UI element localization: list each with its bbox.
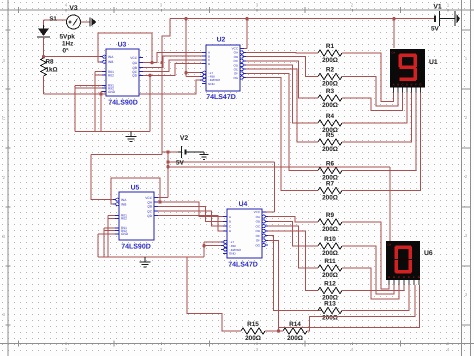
svg-text:R12: R12 — [324, 281, 336, 288]
svg-text:U2: U2 — [217, 37, 226, 44]
wire U2 OA to R1 — [244, 51, 318, 54]
wire R13 to U6 pin E — [342, 285, 409, 311]
svg-text:200Ω: 200Ω — [322, 146, 338, 153]
svg-text:R8: R8 — [46, 59, 55, 66]
wire R14 to U6 pin F — [307, 285, 415, 331]
resistor R7 — [318, 181, 342, 202]
wire U5 R01 R02 left — [108, 215, 115, 257]
wire diode to R8 — [43, 37, 45, 58]
svg-text:E: E — [408, 275, 410, 279]
ground (below U5) — [140, 257, 151, 267]
svg-text:OE: OE — [256, 234, 260, 238]
svg-text:R15: R15 — [247, 321, 259, 328]
svg-text:74LS47D: 74LS47D — [228, 262, 258, 269]
svg-text:A: A — [388, 275, 390, 279]
decoder U2 74LS47D — [200, 37, 246, 102]
svg-text:GND: GND — [121, 232, 129, 236]
wire R2 to U1 pin B — [342, 77, 398, 107]
wire R4 to U1 pin D — [342, 93, 407, 124]
svg-text:C: C — [401, 82, 403, 86]
wire U5 QA loopback to INB — [111, 178, 162, 204]
wire U2 RBO line — [44, 80, 203, 94]
battery V2 — [176, 135, 197, 167]
svg-text:200Ω: 200Ω — [322, 80, 338, 87]
ground (below U3) — [126, 132, 137, 142]
svg-text:CA: CA — [392, 52, 396, 55]
svg-text:200Ω: 200Ω — [322, 102, 338, 109]
svg-text:A: A — [229, 215, 231, 219]
svg-text:R14: R14 — [289, 321, 301, 328]
wire rail corner to V2 node — [162, 19, 170, 155]
svg-text:B: B — [393, 275, 395, 279]
svg-text:5V: 5V — [176, 160, 185, 167]
resistor R2 — [318, 67, 342, 88]
svg-text:74LS47D: 74LS47D — [206, 94, 236, 101]
svg-text:B: B — [397, 82, 399, 86]
svg-text:R10: R10 — [324, 236, 336, 243]
resistor R5 — [318, 132, 342, 153]
clock source V3 — [67, 5, 81, 29]
wire U2 OC to R3 — [244, 61, 318, 98]
svg-text:200Ω: 200Ω — [245, 335, 261, 342]
wire U2 OF to R6 — [244, 73, 318, 170]
wire rail to U1 CA — [393, 19, 395, 48]
node rail junctions — [184, 17, 395, 20]
wire U2 OB to R2 — [244, 57, 318, 77]
svg-text:U6: U6 — [424, 250, 433, 257]
svg-text:5V: 5V — [431, 26, 440, 33]
wire U2 OE to R5 — [244, 69, 318, 142]
svg-text:U4: U4 — [239, 201, 248, 208]
svg-text:R1: R1 — [326, 43, 335, 50]
svg-text:V1: V1 — [433, 4, 442, 11]
wire U5 QC to U4 C — [154, 211, 223, 226]
wire rail to U5 VCC — [158, 197, 168, 199]
wire R10 to U6 pin B — [342, 246, 394, 294]
svg-text:CA: CA — [388, 244, 392, 247]
wire ground bus top — [75, 131, 150, 133]
wire R6 to U1 pin F — [342, 93, 416, 171]
ground (V3 right) — [90, 18, 97, 27]
svg-text:OB: OB — [256, 220, 260, 224]
svg-text:G: G — [419, 82, 421, 86]
svg-text:D: D — [406, 82, 408, 86]
resistor R14 — [265, 321, 307, 342]
svg-text:QB: QB — [147, 205, 152, 209]
wire 5V mid rail lower — [168, 166, 390, 168]
wire to U5 INA — [91, 154, 162, 199]
resistor R13 — [318, 301, 342, 322]
wire V2 node verticals — [162, 150, 178, 197]
resistor R10 — [318, 236, 342, 257]
decoder U4 74LS47D — [221, 201, 268, 269]
svg-text:G: G — [418, 275, 420, 279]
counter U5 74LS90D — [113, 185, 158, 251]
resistor R12 — [318, 281, 342, 302]
ground (V1 right) — [455, 11, 460, 26]
7-segment display U1 — [390, 49, 438, 93]
wire U4 OC to R11 — [266, 226, 318, 268]
svg-text:OF: OF — [256, 239, 260, 243]
svg-text:F: F — [415, 82, 417, 86]
svg-text:74LS90D: 74LS90D — [108, 100, 138, 107]
svg-text:E: E — [411, 82, 413, 86]
svg-text:INA: INA — [121, 198, 127, 202]
svg-text:S1: S1 — [49, 16, 57, 23]
wire R11 to U6 pin C — [342, 268, 399, 299]
svg-text:74LS90D: 74LS90D — [121, 244, 151, 251]
svg-text:VCC: VCC — [130, 56, 137, 60]
svg-text:OG: OG — [233, 76, 238, 80]
wire U5 QB to U4 B — [154, 206, 223, 221]
svg-text:GND: GND — [208, 82, 216, 86]
wire S1 node to V3 — [44, 20, 68, 25]
svg-text:R02: R02 — [108, 73, 114, 77]
7-segment display U6 — [386, 241, 433, 285]
wire 5V top rail — [170, 18, 434, 20]
svg-text:C: C — [398, 275, 400, 279]
ground (V2 right) — [197, 152, 209, 159]
svg-text:R7: R7 — [326, 181, 335, 188]
svg-text:VCC: VCC — [254, 210, 261, 214]
svg-text:200Ω: 200Ω — [322, 194, 338, 201]
wire rail to U4 VCC — [266, 162, 275, 212]
svg-text:200Ω: 200Ω — [322, 57, 338, 64]
wire U4 OA to R9 — [266, 217, 318, 222]
svg-text:0°: 0° — [63, 48, 70, 55]
wire U4 OE to R13 — [266, 236, 322, 311]
wire R8 to RBO line — [43, 76, 45, 94]
svg-text:B: B — [2, 234, 5, 239]
svg-text:U3: U3 — [118, 42, 127, 49]
svg-text:B: B — [229, 220, 231, 224]
svg-text:R6: R6 — [326, 161, 335, 168]
svg-text:QC: QC — [147, 209, 152, 213]
wire ground bus bottom — [98, 256, 204, 258]
wire bus to R15 — [187, 257, 231, 331]
wire U3 QD to U2 D — [139, 64, 202, 77]
wire R5 to U1 pin E — [342, 93, 412, 143]
svg-text:V2: V2 — [180, 135, 189, 142]
diode D1 (S1) — [37, 16, 57, 38]
svg-text:200Ω: 200Ω — [322, 226, 338, 233]
wire rail to U2 LT/RBI — [184, 19, 202, 77]
resistor R9 — [318, 212, 342, 233]
wire R7 to U1 pin G — [342, 93, 421, 191]
svg-text:INB: INB — [121, 203, 126, 207]
svg-text:OG: OG — [255, 243, 260, 247]
svg-text:V3: V3 — [69, 5, 78, 12]
wire R12 to U6 pin D — [342, 285, 404, 291]
svg-text:1Hz: 1Hz — [62, 41, 73, 48]
wire bus to U4 LT/RBI — [202, 242, 223, 257]
wire U3 QA to U2 A — [152, 52, 202, 64]
wire U4 OF to R14 node — [266, 240, 280, 332]
svg-text:200Ω: 200Ω — [322, 272, 338, 279]
svg-text:1kΩ: 1kΩ — [46, 67, 58, 74]
svg-text:U1: U1 — [429, 59, 438, 66]
svg-text:200Ω: 200Ω — [322, 250, 338, 257]
wire node to U3 INA — [42, 55, 102, 58]
wire R9 to U6 pin A — [342, 222, 389, 289]
resistor R6 — [318, 161, 342, 182]
wire 5V mid rail upper — [168, 161, 275, 163]
resistor R3 — [318, 88, 342, 109]
svg-text:R3: R3 — [326, 88, 335, 95]
wire V3 to ground arrow — [81, 21, 91, 23]
wire U2 OD to R4 — [244, 65, 318, 123]
svg-text:R5: R5 — [326, 132, 335, 139]
wire U5 QD to U4 D — [154, 216, 223, 231]
svg-text:U5: U5 — [131, 185, 140, 192]
wire U3 QC to U2 C — [139, 60, 202, 72]
wire U3 QA loopback to INB — [98, 33, 154, 64]
resistor R1 — [318, 43, 342, 64]
svg-text:INA: INA — [108, 55, 114, 59]
svg-text:INB: INB — [108, 60, 113, 64]
svg-text:A: A — [393, 82, 395, 86]
svg-text:VCC: VCC — [145, 196, 152, 200]
wire R1 to U1 pin A — [342, 53, 394, 102]
wire U5 GND down — [98, 234, 115, 257]
wire U4 OB to R10 — [266, 221, 318, 246]
svg-text:QD: QD — [132, 74, 137, 78]
svg-text:R02: R02 — [121, 217, 127, 221]
battery V1 — [431, 4, 455, 33]
svg-text:R13: R13 — [324, 301, 336, 308]
wire U3 R91 R92 left — [75, 85, 102, 131]
wire U3 GND down — [99, 92, 102, 132]
resistor R4 — [318, 113, 342, 134]
svg-text:R9: R9 — [326, 212, 335, 219]
svg-text:F: F — [413, 275, 415, 279]
wire U5 QA to U4 A — [160, 202, 223, 217]
svg-text:GND: GND — [108, 90, 116, 94]
wire U3 QB to U2 B — [139, 56, 202, 68]
svg-text:R2: R2 — [326, 67, 335, 74]
wire U2 OG to R7 — [244, 78, 318, 191]
svg-text:R11: R11 — [324, 258, 336, 265]
svg-text:OA: OA — [256, 215, 260, 219]
resistor R15 — [231, 321, 265, 342]
svg-text:5Vpk: 5Vpk — [60, 34, 76, 41]
resistor R8 — [41, 58, 58, 76]
wire U3 R01 R02 left — [95, 72, 102, 132]
svg-text:D: D — [403, 275, 405, 279]
wire U3 QD branch down — [149, 75, 151, 131]
wire U5 R91 R92 left — [104, 228, 115, 257]
wire U4 OD to R12 — [266, 231, 318, 291]
wire rail to U2 VCC — [244, 19, 247, 49]
svg-text:200Ω: 200Ω — [287, 335, 303, 342]
wire rail to U6 CA — [389, 167, 391, 241]
svg-text:R4: R4 — [326, 113, 335, 120]
wire R3 to U1 pin C — [342, 93, 403, 111]
V3 value label — [60, 34, 76, 55]
svg-text:GND: GND — [229, 252, 237, 256]
svg-text:200Ω: 200Ω — [322, 314, 338, 321]
wire U6 pin G loop — [279, 285, 420, 328]
svg-text:QD: QD — [147, 214, 152, 218]
counter U3 74LS90D — [100, 42, 143, 107]
resistor R11 — [318, 258, 342, 279]
